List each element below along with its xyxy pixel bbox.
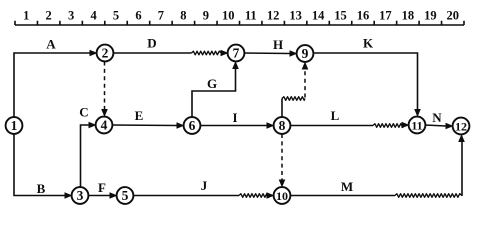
wire edge I from node 6 to node 8: [200, 122, 275, 129]
node 7: [228, 45, 245, 62]
wire dashed dummy from node 8 to node 10: [279, 134, 286, 188]
svg-text:9: 9: [302, 46, 309, 61]
svg-text:11: 11: [411, 119, 422, 133]
node 11: [409, 117, 426, 134]
svg-text:3: 3: [77, 188, 84, 203]
svg-text:17: 17: [379, 9, 392, 23]
svg-text:K: K: [363, 36, 374, 51]
wire edge N from node 11 to node 12: [425, 123, 454, 130]
wire edge G from node 6 to node 7: [192, 61, 239, 118]
svg-text:I: I: [232, 110, 237, 125]
node 10: [274, 187, 291, 204]
svg-text:L: L: [331, 108, 340, 123]
svg-text:19: 19: [424, 9, 437, 23]
wire edge E from node 4 to node 6: [112, 122, 185, 129]
wire edge K from node 9 to node 11: [313, 53, 421, 117]
wire edge J from node 5 to node 10, wavy float tail: [133, 192, 275, 199]
wire edge H from node 7 to node 9: [244, 50, 298, 57]
svg-text:6: 6: [189, 118, 196, 133]
svg-text:1: 1: [11, 118, 18, 133]
svg-text:C: C: [79, 105, 88, 120]
svg-text:7: 7: [158, 9, 164, 23]
wire edge C from node 3 to node 4: [81, 122, 97, 188]
node 2: [97, 45, 114, 62]
wire edge B from node 1 to node 3: [14, 133, 73, 199]
svg-text:N: N: [432, 110, 442, 125]
node 1: [6, 117, 23, 134]
svg-text:7: 7: [233, 46, 240, 61]
node 3: [72, 187, 89, 204]
svg-text:12: 12: [267, 9, 280, 23]
node 8: [274, 117, 291, 134]
ruler numbers 1-20: [23, 9, 459, 23]
svg-text:A: A: [46, 37, 56, 52]
svg-text:20: 20: [447, 9, 460, 23]
svg-text:5: 5: [122, 188, 129, 203]
node 6: [184, 117, 201, 134]
svg-text:3: 3: [68, 9, 74, 23]
svg-text:14: 14: [312, 9, 325, 23]
svg-text:4: 4: [101, 118, 108, 133]
svg-text:6: 6: [135, 9, 141, 23]
svg-text:2: 2: [102, 46, 109, 61]
svg-text:8: 8: [279, 118, 286, 133]
wire edge L from node 8 to node 11, wavy float tail: [290, 122, 410, 129]
svg-text:1: 1: [23, 9, 29, 23]
svg-text:9: 9: [203, 9, 209, 23]
svg-text:10: 10: [276, 189, 288, 203]
wire dummy from node 8 to node 9: solid riser, wavy float, dashed arrow: [282, 62, 308, 119]
svg-text:5: 5: [113, 9, 119, 23]
node 9: [297, 45, 314, 62]
svg-text:13: 13: [289, 9, 302, 23]
svg-text:18: 18: [402, 9, 415, 23]
node 4: [96, 117, 113, 134]
svg-text:E: E: [135, 108, 144, 123]
wire edge D from node 2 to node 7, wavy float tail: [113, 50, 229, 57]
node 12: [453, 118, 470, 135]
svg-text:11: 11: [245, 9, 257, 23]
svg-text:D: D: [147, 36, 156, 51]
svg-text:J: J: [201, 178, 208, 193]
svg-text:10: 10: [222, 9, 235, 23]
svg-text:12: 12: [455, 120, 467, 134]
wire dashed dummy from node 2 to node 4: [101, 62, 108, 118]
ruler baseline: [15, 24, 464, 26]
svg-text:4: 4: [90, 9, 97, 23]
svg-text:15: 15: [334, 9, 347, 23]
svg-text:16: 16: [357, 9, 370, 23]
ruler ticks: [15, 21, 464, 25]
wire edge F from node 3 to node 5: [88, 192, 118, 199]
svg-text:2: 2: [46, 9, 52, 23]
svg-text:F: F: [98, 180, 106, 195]
svg-text:G: G: [207, 76, 217, 91]
wire edge A from node 1 to node 2: [14, 50, 98, 118]
svg-text:8: 8: [180, 9, 186, 23]
svg-text:M: M: [341, 179, 353, 194]
svg-text:B: B: [37, 181, 46, 196]
wire edge M from node 10 to node 12, long wavy tail then riser: [290, 134, 465, 197]
node 5: [117, 187, 134, 204]
svg-text:H: H: [273, 37, 283, 52]
